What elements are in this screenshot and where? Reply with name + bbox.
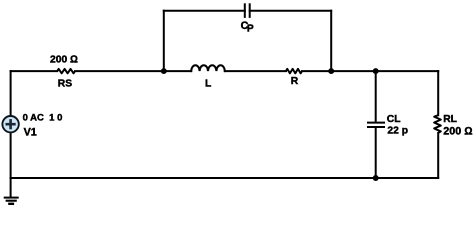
ground: [4, 198, 19, 204]
V1 plus sign: [6, 119, 16, 129]
resistor RL vertical zigzag: [434, 115, 441, 133]
wire: bottom horizontal: [11, 177, 439, 179]
svg-text:200 Ω: 200 Ω: [443, 126, 472, 138]
wire: mid segment RS to L: [75, 70, 191, 72]
svg-text:CL: CL: [387, 114, 401, 125]
wire: left vertical lower (V1 to bottom wire): [10, 133, 12, 178]
capacitor CP plates: [244, 4, 246, 17]
wire: top horizontal right of CP: [250, 10, 332, 12]
node junction dot at CP/R right: [328, 68, 334, 74]
wire: CP branch left vertical: [163, 11, 165, 71]
wire: mid segment L to R: [225, 70, 286, 72]
resistor RS zigzag: [57, 69, 75, 73]
wire: left vertical upper (mid wire to V1): [10, 71, 12, 115]
wire: CL branch upper vertical: [375, 71, 377, 122]
node junction dot CL bottom: [373, 175, 379, 181]
wire: mid left segment from source to RS: [11, 70, 58, 72]
svg-text:CP: CP: [241, 20, 254, 35]
inductor L arcs: [191, 65, 225, 71]
node junction dot at CP/L left: [161, 68, 167, 74]
svg-text:V1: V1: [24, 126, 37, 138]
svg-text:RS: RS: [58, 78, 72, 89]
svg-text:22 p: 22 p: [387, 126, 408, 137]
wire: top horizontal left of CP: [164, 10, 245, 12]
svg-text:0 AC 1 0: 0 AC 1 0: [23, 113, 63, 124]
svg-text:R: R: [291, 76, 299, 87]
svg-text:200 Ω: 200 Ω: [50, 55, 78, 66]
wire: RL branch upper vertical: [437, 71, 439, 115]
capacitor CL plates: [368, 122, 384, 124]
wire: CP branch right vertical: [330, 11, 332, 71]
node junction dot CL top: [373, 68, 379, 74]
wire: ground stem: [10, 178, 12, 197]
wire: mid segment R to right corner: [302, 70, 438, 72]
wire: RL branch lower vertical: [437, 133, 439, 178]
svg-text:RL: RL: [443, 114, 457, 125]
voltage source V1 circle: [2, 116, 18, 132]
resistor R zigzag: [286, 69, 302, 73]
svg-text:L: L: [205, 79, 211, 90]
wire: CL branch lower vertical: [375, 128, 377, 178]
